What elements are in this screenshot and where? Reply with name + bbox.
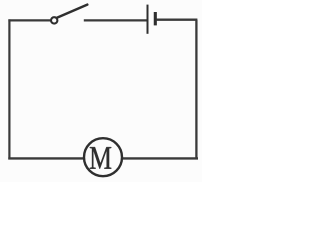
switch (open) pivot circle [51, 17, 57, 23]
battery cell: short (negative) plate [154, 12, 157, 25]
wire: bottom-left horizontal (corner to motor) [8, 157, 84, 159]
wire: top-right horizontal (battery to corner) [157, 19, 198, 21]
switch (open) lever arm [57, 5, 87, 18]
wire: top-left horizontal (corner to switch pivot) [8, 19, 50, 21]
wire: bottom-right horizontal (corner to motor) [122, 157, 198, 159]
motor M: circle [84, 138, 122, 176]
motor M: letter M [90, 147, 111, 169]
wire: left vertical [8, 19, 10, 159]
wire: top horizontal (switch to battery) [84, 19, 147, 21]
wire: right vertical [195, 20, 197, 160]
battery cell: long (positive) plate [147, 5, 149, 34]
